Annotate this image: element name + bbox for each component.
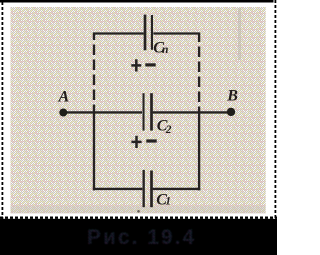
- svg-text:A: A: [58, 88, 70, 105]
- svg-text:1: 1: [165, 195, 171, 207]
- svg-text:2: 2: [165, 124, 172, 136]
- svg-text:B: B: [226, 87, 238, 104]
- svg-text:n: n: [162, 44, 168, 56]
- svg-text:Рис. 19.4: Рис. 19.4: [87, 226, 196, 249]
